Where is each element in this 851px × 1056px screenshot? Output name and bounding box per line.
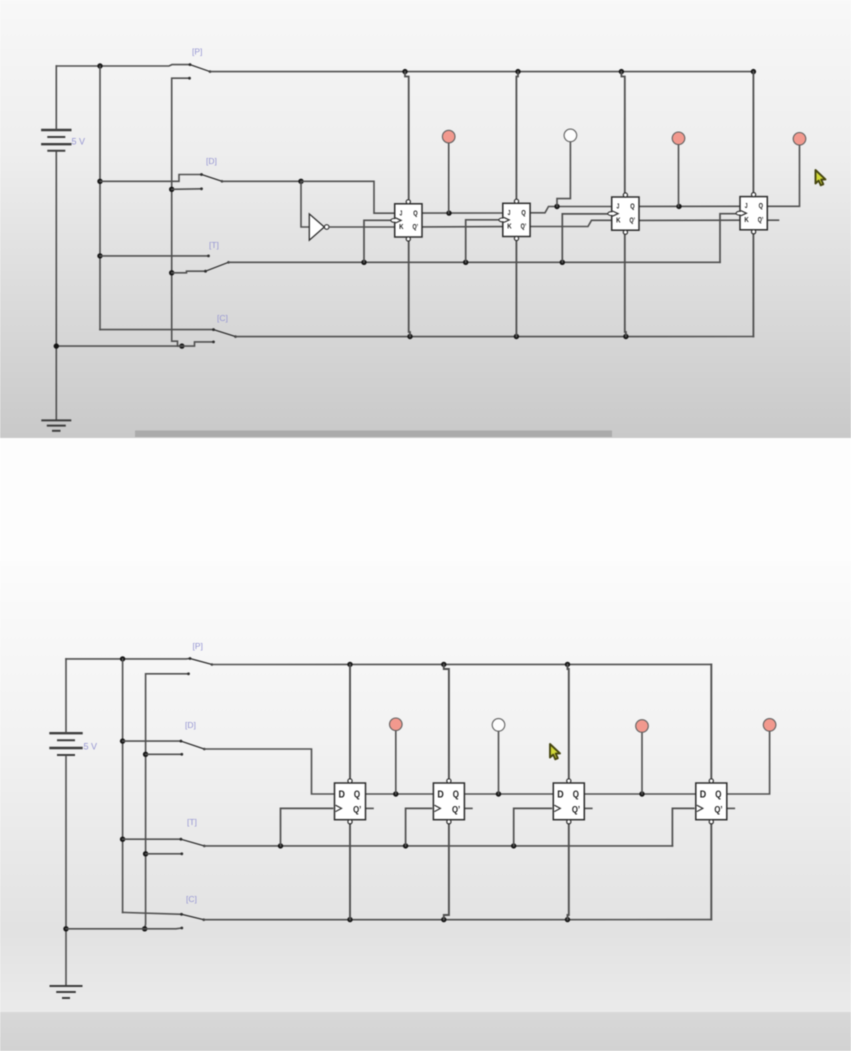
svg-text:[D]: [D] [185, 720, 196, 730]
svg-text:D: D [339, 790, 345, 801]
svg-text:J: J [745, 201, 748, 210]
svg-text:[P]: [P] [192, 47, 202, 57]
svg-text:[T]: [T] [187, 817, 197, 827]
svg-text:J: J [617, 202, 620, 211]
svg-text:5 V: 5 V [84, 742, 98, 752]
svg-text:[C]: [C] [217, 313, 228, 323]
svg-text:Q’: Q’ [630, 215, 636, 224]
svg-text:K: K [507, 222, 512, 231]
svg-text:K: K [616, 215, 621, 224]
svg-text:K: K [744, 215, 749, 224]
svg-text:Q: Q [521, 208, 525, 217]
svg-text:Q’: Q’ [452, 804, 460, 814]
svg-text:Q: Q [630, 202, 634, 211]
svg-text:J: J [508, 208, 511, 217]
svg-text:D: D [700, 790, 706, 801]
svg-text:J: J [400, 208, 403, 217]
svg-text:Q: Q [715, 790, 722, 801]
svg-text:[P]: [P] [193, 641, 203, 651]
svg-text:Q’: Q’ [521, 222, 527, 231]
svg-text:[D]: [D] [206, 156, 217, 166]
svg-text:Q’: Q’ [353, 804, 361, 814]
svg-text:Q’: Q’ [413, 222, 419, 231]
svg-text:5 V: 5 V [72, 137, 86, 147]
svg-text:D: D [437, 790, 443, 801]
svg-text:Q’: Q’ [714, 804, 722, 814]
svg-text:K: K [399, 222, 404, 231]
svg-text:[C]: [C] [186, 894, 197, 904]
svg-text:D: D [557, 790, 563, 801]
svg-text:Q: Q [413, 208, 417, 217]
svg-text:Q: Q [453, 790, 460, 801]
svg-text:Q’: Q’ [758, 215, 764, 224]
svg-text:Q: Q [573, 790, 580, 801]
svg-text:Q: Q [354, 790, 361, 801]
svg-text:Q’: Q’ [572, 804, 580, 814]
svg-text:Q: Q [759, 201, 763, 210]
svg-text:[T]: [T] [209, 240, 219, 250]
